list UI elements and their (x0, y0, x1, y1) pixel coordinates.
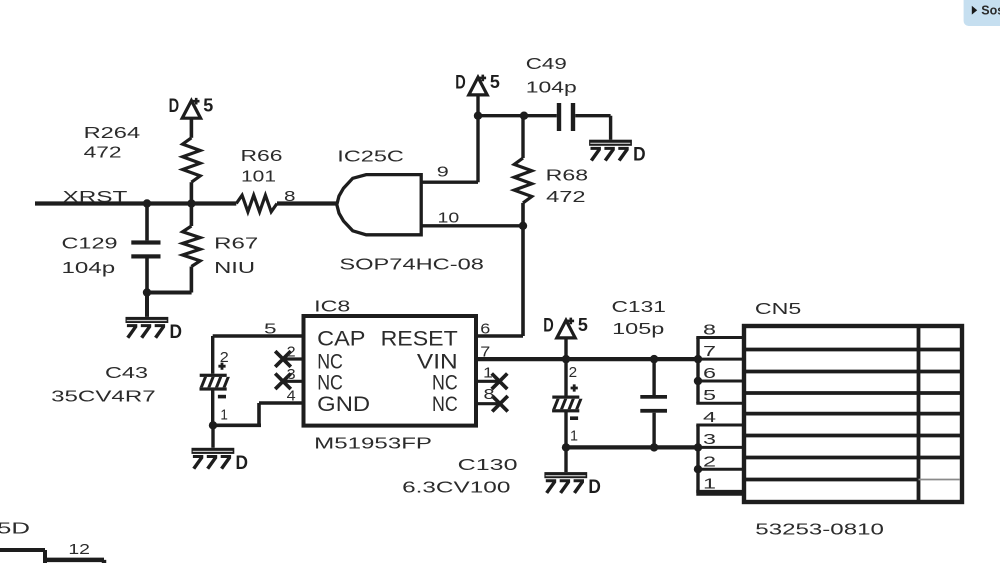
wire CN5 pin5 stub (696, 402, 744, 405)
C130 plus mark (571, 384, 578, 391)
wire C131 top (652, 359, 655, 395)
svg-text:GND: GND (317, 393, 370, 416)
svg-text:8: 8 (284, 188, 296, 205)
wire C130 top (564, 359, 567, 395)
node XRST-R264 junction (187, 199, 195, 207)
svg-text:R264: R264 (84, 125, 141, 142)
svg-text:6: 6 (480, 321, 490, 338)
svg-text:104p: 104p (62, 260, 116, 277)
svg-text:D: D (588, 476, 601, 498)
svg-text:IC25C: IC25C (337, 148, 404, 165)
wire CN5 row separator 3 (744, 391, 962, 395)
svg-text:105p: 105p (612, 321, 664, 338)
wire VIN net pin7 (476, 357, 698, 361)
node C43 pin1 junction (209, 421, 217, 429)
svg-text:D: D (455, 73, 466, 94)
svg-text:1: 1 (703, 476, 716, 493)
C43 plus mark (218, 363, 225, 370)
svg-text:XRST: XRST (63, 189, 128, 206)
wire R67 bottom (190, 267, 194, 293)
capacitor C129 plates (131, 240, 160, 258)
node XRST-C129 junction (143, 199, 151, 207)
svg-text:1: 1 (570, 427, 578, 444)
svg-text:104p: 104p (526, 80, 577, 97)
wire CN5 row separator 6 (744, 456, 962, 460)
wire CN5 row separator 7 (744, 478, 919, 482)
power symbol D+5 at C130 (557, 318, 575, 338)
node C129-R67 bottom junction (143, 288, 151, 296)
svg-text:SOP74HC-08: SOP74HC-08 (339, 256, 484, 273)
wire CN5 row separator 4 (744, 412, 962, 416)
wire C130 bottom to ground (564, 412, 567, 472)
svg-text:1: 1 (483, 364, 493, 381)
wire CN5 pin3 stub (698, 446, 744, 449)
wire CN5 bus top group (696, 338, 699, 404)
wire IC8 pin4 GND staircase (213, 403, 304, 425)
svg-text:6.3CV100: 6.3CV100 (402, 480, 510, 497)
resistor R68 (514, 158, 532, 203)
node VIN-CN5 junction (694, 355, 702, 363)
power symbol D+5 at IC25C (469, 75, 487, 95)
svg-text:C130: C130 (458, 457, 518, 474)
wire XRST node to R67 (190, 204, 194, 227)
wire CN5 column divider (917, 326, 921, 502)
svg-text:D: D (633, 144, 646, 166)
wire IC8 pin2 stub (283, 357, 304, 360)
svg-text:3: 3 (703, 431, 716, 448)
svg-text:10: 10 (438, 209, 460, 226)
node gnd-C130 junction (562, 443, 570, 451)
capacitor C49 plates (557, 103, 575, 131)
resistor R66 (236, 195, 277, 212)
svg-text:D: D (169, 96, 180, 117)
wire +5 rail top (476, 95, 557, 116)
svg-text:5: 5 (490, 71, 500, 92)
op-amp IC8 box (304, 316, 477, 426)
wire CN5 pin2 stub (698, 468, 744, 471)
node R68-pin10 junction (519, 222, 527, 230)
svg-text:D: D (170, 321, 183, 343)
node gnd-CN5 junction (694, 443, 702, 451)
ground at C49 (589, 140, 632, 162)
svg-text:472: 472 (546, 189, 586, 206)
svg-text:472: 472 (84, 145, 122, 162)
svg-text:IC8: IC8 (314, 299, 350, 316)
svg-text:8: 8 (484, 386, 495, 403)
svg-text:NC: NC (432, 393, 458, 416)
svg-text:D: D (543, 316, 554, 337)
svg-text:NC: NC (432, 372, 458, 395)
wire +5 to R264 (190, 118, 194, 138)
wire CN5 row separator 1 (744, 348, 962, 352)
no-connect X IC8 pin2 (275, 351, 291, 367)
svg-text:R66: R66 (241, 148, 283, 165)
svg-text:12: 12 (68, 541, 90, 558)
capacitor C43 polarized body (200, 374, 230, 391)
svg-text:6: 6 (703, 365, 716, 382)
C130 minus mark (570, 416, 578, 420)
wire R68 to node (521, 203, 525, 226)
svg-text:7: 7 (703, 343, 716, 360)
wire CN5 pin7 stub (698, 358, 744, 361)
wire C49 right to ground (575, 116, 610, 140)
wire +5 to R68 (521, 116, 524, 158)
wire node to IC8 RESET pin6 (476, 226, 523, 336)
svg-text:NC: NC (317, 372, 343, 395)
no-connect X IC8 pin1 (492, 374, 508, 390)
svg-text:3: 3 (287, 366, 296, 383)
wire C131 bottom (652, 413, 655, 448)
svg-text:C49: C49 (526, 56, 567, 73)
wire ground net (566, 445, 698, 449)
svg-text:2: 2 (287, 344, 296, 361)
wire C43 bottom to ground (211, 391, 215, 448)
svg-text:4: 4 (287, 388, 296, 405)
wire CN5 gray separator segment (919, 479, 961, 481)
node +5 rail junction at R68 (520, 112, 528, 120)
browser widget tab top-right (964, 0, 1000, 26)
resistor R264 (183, 138, 201, 182)
svg-text:R68: R68 (546, 168, 589, 185)
wire XRST net (35, 201, 337, 205)
wire R264 to XRST node (190, 182, 194, 203)
svg-text:5: 5 (203, 95, 213, 116)
node VIN-C131 junction (650, 355, 658, 363)
svg-text:C43: C43 (105, 365, 148, 382)
no-connect X IC8 pin3 (275, 374, 291, 390)
capacitor C131 plates (640, 395, 667, 413)
wire bottom-left fragment B (45, 560, 104, 563)
wire IC8 pin1 stub (476, 380, 500, 383)
node VIN-C130 junction (562, 355, 570, 363)
op-amp gate IC25C AND body (337, 175, 421, 235)
svg-text:C131: C131 (612, 299, 667, 316)
svg-text:7: 7 (480, 344, 490, 361)
wire CN5 pin1 stub (696, 491, 744, 494)
svg-text:CAP: CAP (317, 328, 365, 351)
wire +5 to VIN node (564, 338, 567, 359)
svg-text:5: 5 (703, 387, 716, 404)
wire CN5 row separator 5 (744, 434, 962, 438)
svg-text:D: D (236, 452, 249, 474)
svg-text:NC: NC (317, 350, 343, 373)
wire CN5 pin6 stub (698, 380, 744, 383)
wire CN5 row separator 2 (744, 370, 962, 374)
svg-text:VIN: VIN (417, 350, 458, 373)
resistor R67 (183, 226, 201, 267)
wire IC8 pin8 stub (476, 402, 500, 405)
svg-text:8: 8 (703, 322, 716, 339)
svg-text:53253-0810: 53253-0810 (755, 521, 884, 538)
svg-text:5D: 5D (0, 520, 30, 537)
wire IC8 pin3 stub (283, 380, 304, 383)
ground at C130 (544, 472, 587, 494)
no-connect X IC8 pin8 (492, 396, 508, 412)
svg-text:Sost: Sost (981, 4, 1000, 18)
capacitor C130 polarized body (552, 396, 582, 413)
wire bottom link C129-R67 (145, 293, 192, 317)
ground at C129 (126, 317, 169, 339)
wire CN5 pin4 stub (696, 424, 744, 427)
svg-text:2: 2 (703, 453, 716, 470)
svg-text:C129: C129 (62, 235, 118, 252)
svg-text:NIU: NIU (214, 260, 255, 277)
wire C129 top (145, 204, 149, 241)
svg-text:R67: R67 (214, 235, 258, 252)
node gnd-C131 junction (650, 443, 658, 451)
wire IC8 pin5 to C43 (213, 336, 304, 374)
svg-text:M51953FP: M51953FP (314, 435, 432, 452)
wire CN5 pin8 stub (696, 336, 744, 339)
wire CN5 bus bottom group (696, 425, 699, 493)
svg-text:9: 9 (437, 163, 449, 180)
connector CN5 body (744, 326, 962, 502)
svg-text:5: 5 (578, 314, 588, 335)
svg-text:35CV4R7: 35CV4R7 (51, 389, 156, 406)
wire C129 bottom (145, 259, 149, 293)
wire AND pin10 (421, 224, 523, 227)
svg-text:2: 2 (569, 364, 578, 381)
svg-text:CN5: CN5 (755, 301, 802, 318)
node +5 rail junction at pin9 (474, 112, 482, 120)
C43 minus mark (218, 395, 226, 399)
ground at C43 (192, 448, 235, 470)
svg-text:4: 4 (703, 409, 716, 426)
svg-text:RESET: RESET (381, 328, 458, 351)
node CN5 pin2 junction (694, 465, 702, 473)
wire bottom-left fragment A (0, 550, 45, 563)
wire AND pin9 (421, 116, 478, 183)
power symbol D+5 at R264 (182, 98, 200, 118)
node CN5 pin6 junction (694, 377, 702, 385)
svg-text:1: 1 (220, 407, 228, 424)
svg-text:5: 5 (264, 321, 277, 338)
svg-text:101: 101 (241, 169, 276, 186)
